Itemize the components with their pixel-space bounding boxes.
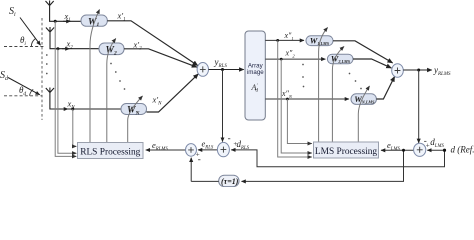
wire d_LMS into summer C	[427, 149, 444, 151]
wire x_1 mid arrow	[63, 20, 71, 22]
svg-text:θi: θi	[20, 35, 26, 47]
block RLS Processing	[78, 143, 144, 159]
node S_d label	[0, 70, 9, 82]
node S_i label	[9, 6, 16, 18]
svg-text:Sd: Sd	[0, 70, 9, 82]
svg-text:d (Ref.): d (Ref.)	[451, 145, 474, 155]
svg-text:yRLS: yRLS	[214, 57, 228, 69]
svg-text:RLS Processing: RLS Processing	[80, 148, 140, 158]
svg-text:-: -	[198, 154, 201, 164]
node y_RLS label	[214, 57, 228, 69]
wire S_d incident arrow	[8, 78, 40, 95]
node d_LMS label	[430, 137, 444, 149]
weight W1LMS	[306, 35, 333, 46]
svg-text:x″N: x″N	[281, 89, 293, 99]
summer B	[217, 142, 229, 156]
wire dashed horizon line upper	[4, 46, 44, 48]
weights ellipsis dots	[110, 63, 125, 90]
wire x''_1 tap to LMS	[278, 40, 312, 157]
node y_RLS junction dot	[221, 68, 224, 71]
wire WNLMS output to RLMS summer	[376, 77, 394, 100]
node x''_1 junction dot	[276, 39, 279, 42]
wire y_RLS tap down to summer B	[222, 70, 224, 142]
svg-text:eRLS: eRLS	[202, 138, 214, 150]
node x_2 junction dot	[56, 47, 59, 50]
svg-text:-: -	[228, 133, 231, 143]
wire x''_2 tap to LMS	[281, 59, 312, 153]
wire LMS feedback to WNLMS	[358, 86, 369, 142]
wire e_RLMS from summer A to RLS box	[146, 149, 186, 151]
weight WNLMS	[351, 94, 376, 105]
svg-text:LMS Processing: LMS Processing	[315, 147, 378, 157]
svg-text:image: image	[247, 69, 264, 76]
node e_RLMS label	[152, 140, 168, 152]
svg-text:Si: Si	[9, 6, 16, 18]
summer RLS	[197, 63, 208, 77]
node x''_2 junction dot	[280, 58, 283, 61]
node x'_1 label	[117, 11, 126, 23]
weight W2	[99, 43, 124, 56]
node x''_N label	[281, 89, 293, 99]
wire x_2 tap to RLS	[58, 49, 76, 154]
wire dashed horizon line lower	[4, 95, 42, 97]
node x_2 label	[66, 38, 74, 50]
node theta_d label	[19, 85, 26, 97]
svg-text:yRLMS: yRLMS	[433, 65, 451, 77]
node x_1 label	[64, 11, 71, 23]
LMS weights ellipsis dots	[349, 73, 362, 90]
weight WN	[121, 104, 147, 117]
node e_LMS label	[387, 140, 400, 152]
antenna 3	[46, 88, 121, 110]
wire dashed array axis vertical	[41, 18, 43, 120]
node x_N junction dot	[71, 108, 74, 111]
svg-text:x′N: x′N	[152, 95, 163, 107]
antenna ellipsis dots	[46, 54, 48, 74]
svg-text:A′d: A′d	[251, 83, 259, 94]
wire LMS feedback to W1LMS	[319, 28, 328, 143]
wire x''_1 to W1LMS	[265, 39, 304, 41]
summer RLMS	[392, 64, 404, 78]
node d reference label	[451, 145, 474, 155]
wire W1 output to RLS summer	[107, 21, 198, 66]
block Array image	[245, 31, 265, 120]
wire x''_2 to W2LMS	[265, 58, 325, 60]
wire RLS feedback to W1	[90, 10, 100, 143]
wire x''_N to WNLMS	[265, 98, 349, 100]
svg-text:dRLS: dRLS	[237, 139, 250, 151]
node d reference junction dot	[443, 149, 446, 152]
node d_RLS label	[237, 139, 250, 151]
wire x''_N tap to LMS	[287, 99, 311, 144]
wire S_i incident arrow	[20, 18, 41, 46]
summer C	[414, 143, 426, 156]
node x'_N label	[152, 95, 163, 107]
wire e_RLS from summer B to summer A	[198, 149, 217, 151]
node theta_d arc	[30, 89, 34, 95]
node y_RLMS junction dot	[417, 69, 420, 72]
wire W2 output to RLS summer	[124, 49, 197, 67]
summer A	[186, 144, 197, 157]
node y_RLMS label	[433, 65, 451, 77]
wire d_RLS into summer B	[231, 150, 444, 167]
wire y_RLS to Array image	[209, 69, 244, 71]
weight W1	[81, 15, 107, 28]
wire RLS feedback to W2	[107, 39, 116, 143]
svg-text:(τ=1): (τ=1)	[221, 177, 239, 186]
svg-text:dLMS: dLMS	[430, 137, 444, 149]
weight W2LMS	[327, 54, 353, 65]
node e_RLS label	[202, 138, 214, 150]
wire RLS feedback to WN	[128, 96, 143, 143]
array outputs ellipsis dots	[302, 64, 304, 88]
wire delay feedback up into summer A	[190, 158, 192, 182]
svg-text:+: +	[426, 142, 430, 150]
wire x_N tap to RLS	[73, 109, 77, 146]
node x'_2 label	[133, 39, 143, 51]
wire x_N mid arrow	[61, 108, 68, 110]
node e_LMS junction dot	[402, 149, 405, 152]
antenna 1	[46, 1, 83, 22]
wire y_RLMS tap down to summer C	[418, 70, 420, 143]
block delay tau	[219, 175, 239, 186]
block LMS Processing	[314, 142, 379, 158]
node theta_i label	[20, 35, 26, 47]
wire delay output to summer A	[191, 180, 219, 182]
svg-text:x″2: x″2	[285, 49, 296, 59]
wire y_RLMS output	[403, 69, 432, 71]
node x''_1 label	[284, 31, 294, 41]
node x_N label	[67, 99, 76, 111]
wire W1LMS output to RLMS summer	[333, 41, 393, 63]
wire e_LMS from summer C to LMS box	[381, 149, 414, 151]
wire WN output to RLS summer	[147, 74, 199, 112]
node x_1 junction dot	[54, 20, 57, 23]
wire LMS feedback to W2LMS	[332, 47, 344, 143]
svg-text:x″1: x″1	[284, 31, 294, 41]
node theta_i arc	[31, 39, 35, 47]
antenna 2	[46, 27, 99, 49]
node x''_N junction dot	[286, 98, 289, 101]
node x''_2 label	[285, 49, 296, 59]
wire x_2 mid arrow	[62, 48, 70, 50]
wire x_1 tap to RLS	[55, 21, 76, 156]
wire W2LMS output to RLMS summer	[353, 59, 391, 68]
svg-text:x′2: x′2	[133, 39, 143, 51]
wire e_LMS tap to delay	[242, 150, 404, 181]
